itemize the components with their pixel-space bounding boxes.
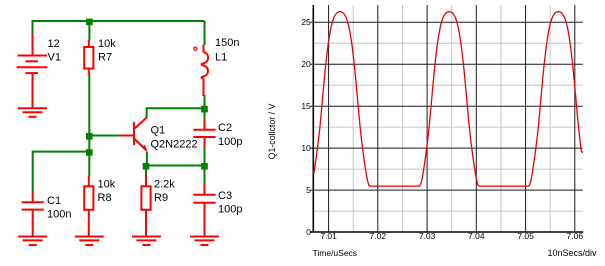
svg-text:C1: C1 [47, 195, 61, 207]
battery V1 [17, 33, 48, 108]
svg-text:25: 25 [301, 17, 311, 27]
svg-text:12: 12 [48, 38, 60, 50]
svg-text:C2: C2 [218, 122, 232, 134]
L1 phase dot [194, 47, 197, 50]
ground below C1 [18, 237, 47, 246]
plot bottom axis line [310, 231, 583, 233]
node junction base [86, 133, 93, 140]
plot minor grid vertical [353, 5, 550, 232]
node junction collector / L1 / C2 [201, 106, 208, 113]
svg-text:L1: L1 [215, 52, 227, 64]
Q1 emitter arrowhead [142, 145, 147, 151]
capacitor C3 [193, 183, 215, 237]
svg-text:100p: 100p [218, 204, 242, 216]
svg-text:10nSecs/div: 10nSecs/div [547, 248, 597, 258]
svg-text:0: 0 [306, 227, 311, 237]
wire C2 top [204, 108, 206, 120]
inductor L1 [201, 45, 208, 97]
resistor R8 [84, 176, 93, 237]
ground below V1 [18, 108, 47, 117]
node junction C2 / C3 [201, 163, 208, 170]
capacitor C2 [193, 119, 215, 148]
node junction emitter / R9 [143, 163, 150, 170]
ground below C3 [190, 237, 219, 246]
plot major grid vertical [329, 5, 575, 232]
wire base [89, 135, 120, 137]
svg-text:C3: C3 [218, 190, 232, 202]
wire R7 top drop [88, 21, 90, 41]
svg-text:Q1-collctor / V: Q1-collctor / V [267, 104, 277, 160]
ground below R9 [132, 237, 161, 246]
svg-text:R7: R7 [98, 52, 112, 64]
resistor R7 [84, 40, 93, 75]
svg-text:Q2N2222: Q2N2222 [151, 139, 198, 151]
svg-text:15: 15 [301, 101, 311, 111]
svg-text:10k: 10k [98, 38, 116, 50]
transistor Q1 [120, 118, 147, 151]
svg-text:20: 20 [301, 59, 311, 69]
svg-text:R9: R9 [154, 192, 168, 204]
wire emitter to node [146, 152, 148, 166]
svg-text:5: 5 [306, 185, 311, 195]
resistor R9 [141, 176, 150, 237]
svg-text:7.04: 7.04 [468, 231, 485, 241]
svg-text:R8: R8 [98, 192, 112, 204]
svg-text:7.02: 7.02 [370, 231, 387, 241]
wire R9 top [145, 166, 147, 177]
svg-text:7.05: 7.05 [517, 231, 534, 241]
wire L1 top drop [204, 21, 206, 45]
wire L1 bottom to collector node [204, 95, 206, 108]
svg-text:Time/uSecs: Time/uSecs [313, 248, 358, 258]
svg-text:10: 10 [301, 143, 311, 153]
plot minor grid horizontal [313, 43, 582, 211]
svg-text:10k: 10k [98, 179, 116, 191]
wire C2 bottom to emitter node rail [204, 147, 206, 166]
wire C3 top [204, 166, 206, 185]
wire collector node to Q1 collector [147, 108, 205, 118]
svg-text:2.2k: 2.2k [154, 179, 175, 191]
svg-text:7.01: 7.01 [320, 231, 337, 241]
svg-text:100n: 100n [47, 209, 71, 221]
svg-text:150n: 150n [215, 37, 239, 49]
plot major grid horizontal [310, 22, 583, 190]
svg-text:V1: V1 [48, 52, 61, 64]
wire C1 to bus [33, 152, 90, 193]
wire emitter node to C2/C3 node [147, 165, 205, 167]
ground below R8 [75, 237, 104, 246]
plot y axis line [312, 5, 314, 232]
wire top rail [33, 21, 205, 34]
wire left bus R7 to R8 [88, 74, 90, 177]
waveform curve Q1-collector [314, 12, 583, 187]
capacitor C1 [22, 192, 44, 237]
svg-text:7.06: 7.06 [567, 231, 584, 241]
svg-text:100p: 100p [218, 136, 242, 148]
svg-text:Q1: Q1 [151, 125, 166, 137]
svg-text:7.03: 7.03 [419, 231, 436, 241]
node junction top rail / R7 [86, 19, 93, 26]
node junction C1 wire [86, 149, 93, 156]
